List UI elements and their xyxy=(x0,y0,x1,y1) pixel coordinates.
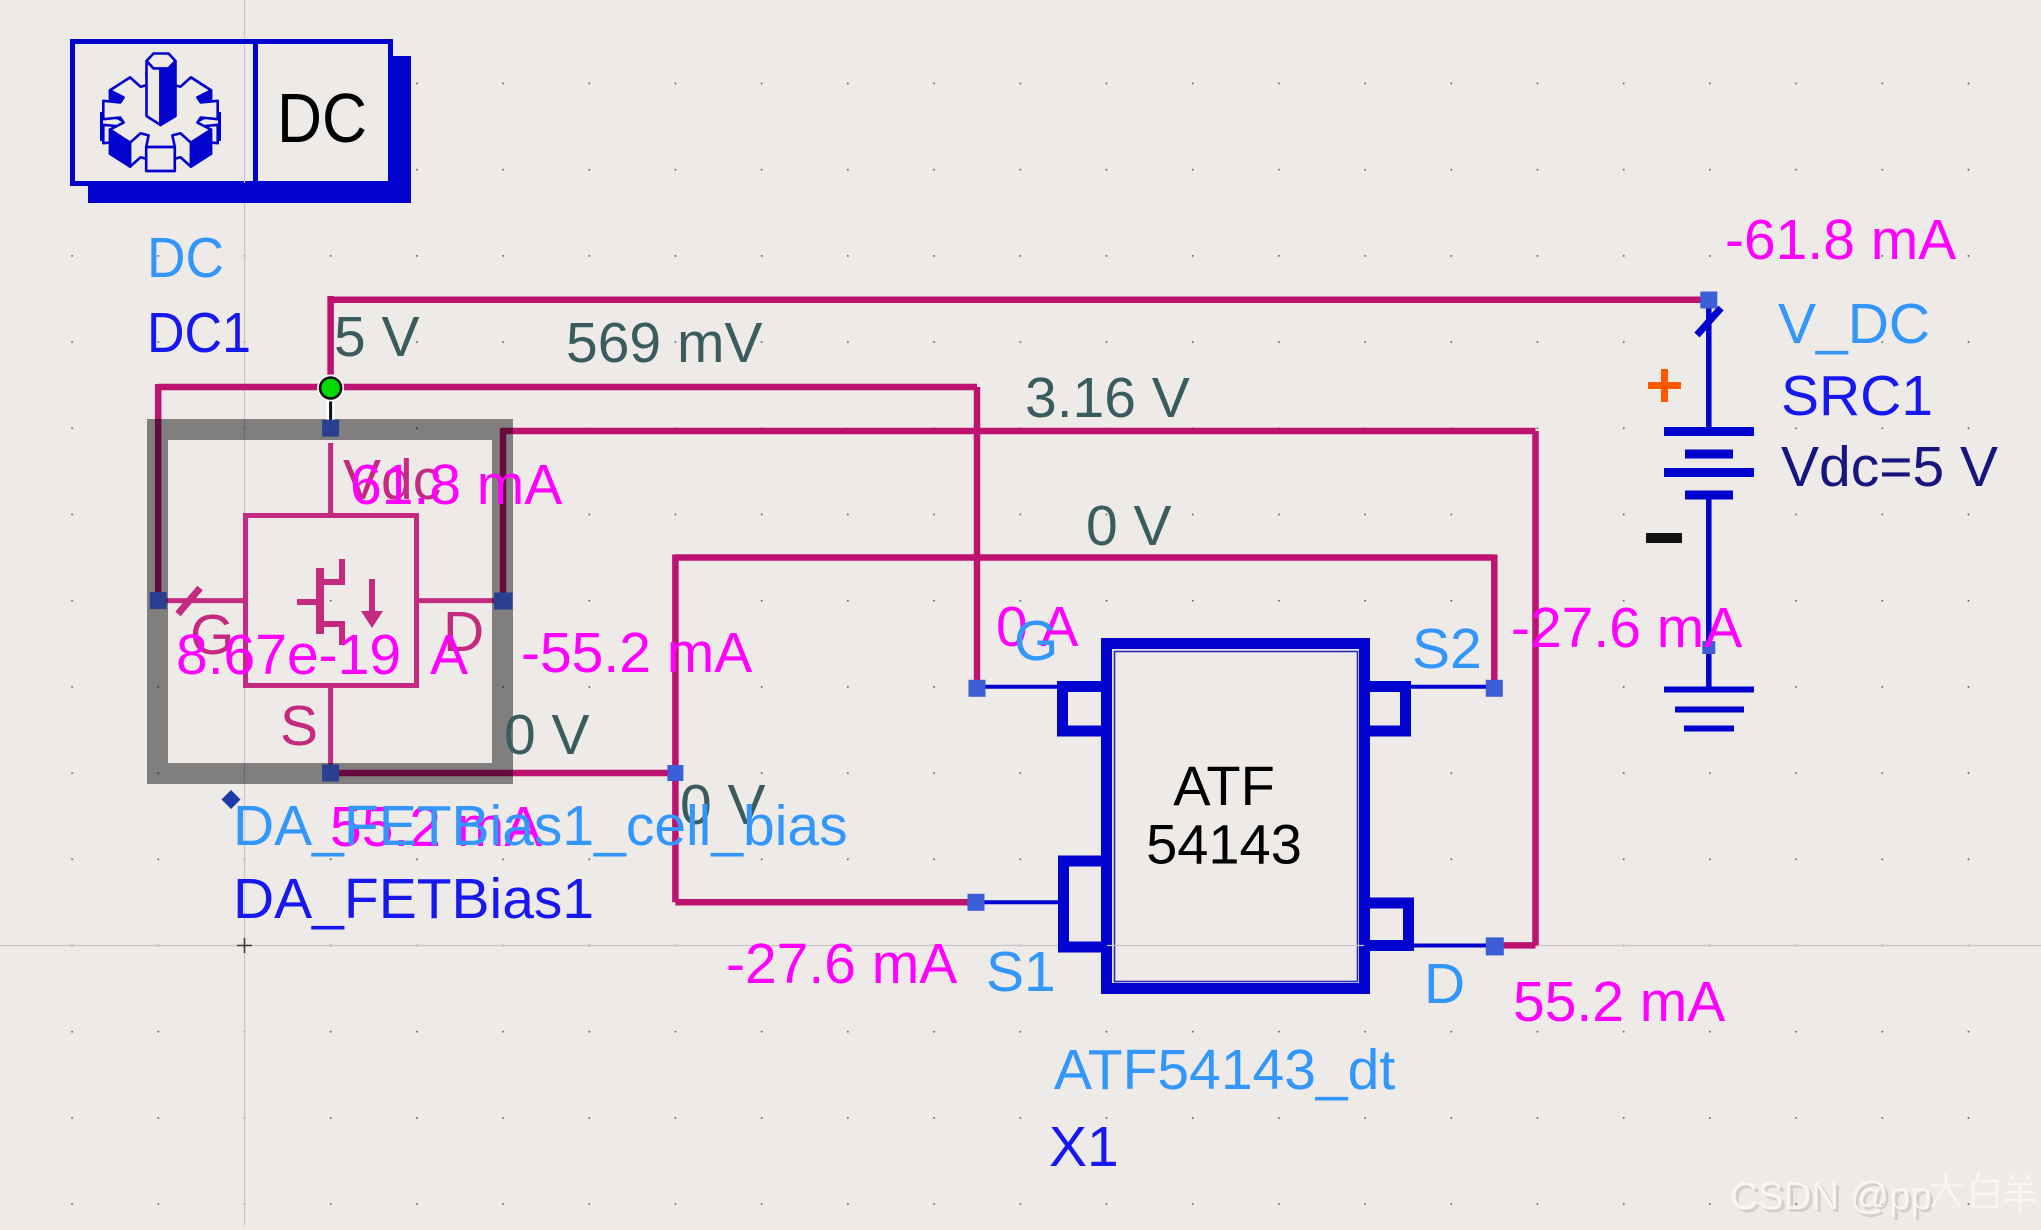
wire xyxy=(675,899,976,906)
svg-text:S2: S2 xyxy=(1412,617,1482,681)
watermark CSDN xyxy=(1730,1172,2036,1221)
pin square D of X1 xyxy=(1486,937,1504,955)
wire end square at SRC1 plus xyxy=(1700,292,1717,309)
origin axis vertical line xyxy=(244,0,246,1225)
pin squares of DA_FETBias1 xyxy=(150,420,513,782)
anchor diamond of DA_FETBias1 xyxy=(222,790,241,809)
wire end square at SRC1 minus xyxy=(1702,641,1715,654)
gear icon of DC controller xyxy=(102,54,220,171)
pin S2 lead of X1 xyxy=(1408,685,1494,689)
svg-text:S: S xyxy=(280,694,318,758)
wire xyxy=(331,770,676,777)
minus sign of SRC1 xyxy=(1646,533,1682,543)
node junction (green) xyxy=(317,375,344,425)
voltage source V_DC SRC1 xyxy=(1664,304,1754,689)
pin square S1 of X1 xyxy=(968,894,985,911)
wire net source 0 V xyxy=(675,554,1494,561)
wire xyxy=(1532,431,1539,945)
DC controller shadow xyxy=(88,56,411,203)
svg-text:61.8 mA: 61.8 mA xyxy=(350,453,562,517)
origin crosshair xyxy=(237,938,252,953)
svg-text:X1: X1 xyxy=(1049,1115,1119,1179)
ground xyxy=(1664,690,1754,729)
svg-text:8.67e-19: 8.67e-19 xyxy=(176,623,401,687)
svg-text:V_DC: V_DC xyxy=(1778,292,1930,356)
pin S1 tab of X1 xyxy=(1064,861,1102,947)
svg-text:DA_FETBias1_cell_bias: DA_FETBias1_cell_bias xyxy=(233,794,848,858)
pin square S2 of X1 xyxy=(1486,680,1503,697)
svg-text:A: A xyxy=(430,623,468,687)
svg-text:DA_FETBias1: DA_FETBias1 xyxy=(233,867,594,931)
svg-text:5 V: 5 V xyxy=(334,305,420,369)
svg-text:569 mV: 569 mV xyxy=(566,311,762,375)
wire net VCC top (5 V) xyxy=(331,297,1709,304)
svg-text:G: G xyxy=(1014,609,1058,673)
svg-text:Vdc=5 V: Vdc=5 V xyxy=(1781,435,1998,499)
wire xyxy=(1494,942,1535,949)
wire junction square xyxy=(667,765,683,781)
DC controller box U:DC1 xyxy=(73,39,391,186)
svg-text:ATF: ATF xyxy=(1173,754,1275,817)
svg-text:0 V: 0 V xyxy=(504,703,590,767)
pin S2 tab of X1 xyxy=(1370,687,1406,732)
svg-text:DC1: DC1 xyxy=(147,301,251,365)
wire xyxy=(155,384,162,601)
svg-text:55.2 mA: 55.2 mA xyxy=(1513,970,1725,1034)
gray selection frame of DA_FETBias1 xyxy=(158,430,503,774)
wire net drain 3.16 V xyxy=(503,428,1536,435)
svg-text:-27.6 mA: -27.6 mA xyxy=(726,932,957,996)
pin D lead of X1 xyxy=(1411,944,1494,948)
origin axis line visible through X1 box xyxy=(1107,945,1364,947)
pin G tab of X1 xyxy=(1063,687,1102,732)
FET bias component DA_FETBias1 symbol xyxy=(166,443,494,766)
pin G lead of X1 xyxy=(977,685,1060,689)
svg-text:DC: DC xyxy=(277,79,367,157)
svg-text:CSDN @pp: CSDN @pp xyxy=(1730,1175,1932,1218)
svg-text:3.16 V: 3.16 V xyxy=(1025,366,1190,430)
origin axis line visible through DC controller box xyxy=(244,44,246,183)
svg-text:-55.2 mA: -55.2 mA xyxy=(521,621,752,685)
svg-text:D: D xyxy=(1424,952,1465,1016)
origin axis horizontal line xyxy=(0,945,2041,947)
plus sign of SRC1 xyxy=(1648,369,1681,402)
svg-text:DC: DC xyxy=(147,226,224,290)
wire xyxy=(672,555,679,903)
wire xyxy=(327,296,334,387)
svg-text:SRC1: SRC1 xyxy=(1781,364,1933,428)
wire xyxy=(974,387,981,687)
svg-text:54143: 54143 xyxy=(1146,813,1302,876)
pin square G of X1 xyxy=(969,680,986,697)
pin D tab of X1 xyxy=(1370,903,1409,946)
transistor X1 ATF54143 symbol box xyxy=(1107,644,1365,989)
svg-text:ATF54143_dt: ATF54143_dt xyxy=(1054,1038,1395,1102)
svg-text:-27.6 mA: -27.6 mA xyxy=(1511,596,1742,660)
FET glyph inside DA_FETBias1 xyxy=(297,559,383,645)
wire xyxy=(500,428,507,594)
pin S1 lead of X1 xyxy=(976,900,1060,904)
svg-text:S1: S1 xyxy=(986,940,1056,1004)
wire net gate 569 mV xyxy=(158,384,977,391)
svg-text:0 V: 0 V xyxy=(1086,494,1172,558)
svg-text:-61.8 mA: -61.8 mA xyxy=(1725,208,1956,272)
wire xyxy=(1491,555,1498,687)
